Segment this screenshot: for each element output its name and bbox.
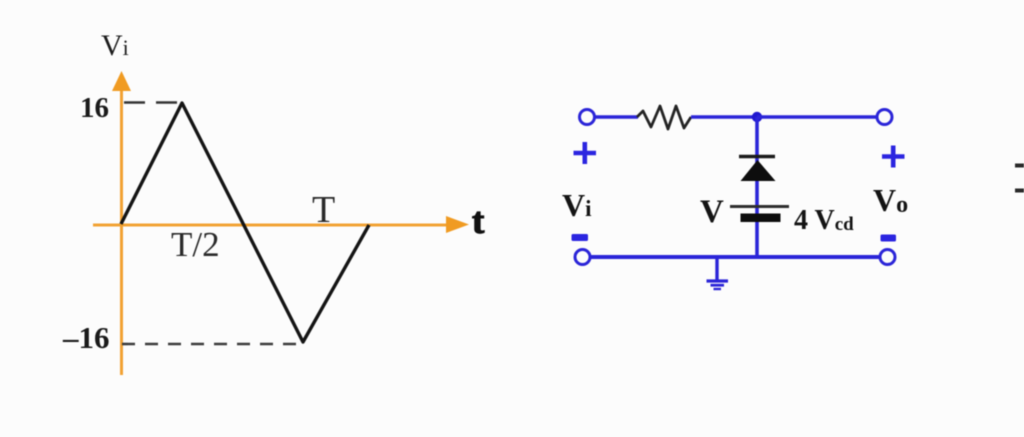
horizontal axis (t) <box>93 216 469 233</box>
+ sign (Vi side) <box>574 142 597 164</box>
svg-text:t: t <box>472 201 485 242</box>
svg-text:4 Vcd: 4 Vcd <box>794 205 854 236</box>
wire: node down through diode/battery branch <box>755 117 759 257</box>
dashed line at +16 level <box>124 101 181 104</box>
input terminal bottom <box>575 250 590 265</box>
output terminal top <box>877 110 892 125</box>
svg-text:V: V <box>700 194 724 230</box>
wire: resistor to node <box>691 115 757 119</box>
- sign (Vi side) <box>572 234 589 241</box>
wire: node to output terminal <box>757 115 877 119</box>
svg-text:–16: –16 <box>62 320 110 355</box>
svg-text:16: 16 <box>80 92 109 124</box>
bottom wire <box>590 255 880 259</box>
diode D <box>739 157 776 182</box>
resistor R <box>637 106 691 129</box>
node junction <box>752 112 762 122</box>
equals-sign fragment at right edge <box>1015 164 1024 193</box>
svg-text:T: T <box>312 189 335 231</box>
+ sign (Vo side) <box>882 146 905 168</box>
wire: input to resistor <box>595 115 638 119</box>
svg-text:T/2: T/2 <box>171 225 220 264</box>
triangle waveform <box>121 103 369 342</box>
svg-text:Vo: Vo <box>873 182 908 218</box>
output terminal bottom <box>880 250 895 265</box>
dashed line at -16 level <box>122 343 300 346</box>
vertical axis (Vi) <box>112 71 131 375</box>
battery V (4 Vcd) <box>730 207 789 223</box>
input terminal top <box>580 110 595 125</box>
ground <box>707 259 729 289</box>
svg-text:Vi: Vi <box>562 187 592 223</box>
svg-text:Vi: Vi <box>101 29 129 62</box>
- sign (Vo side) <box>881 235 897 242</box>
